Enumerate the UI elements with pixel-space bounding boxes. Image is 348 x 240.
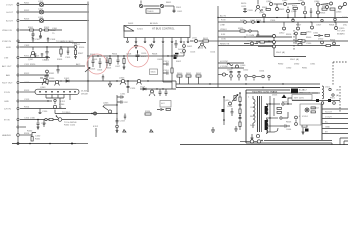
diode D330 — [94, 112, 97, 115]
svg-text:R940: R940 — [306, 37, 312, 39]
svg-text:T601 REG CONV TRANS: T601 REG CONV TRANS — [252, 91, 278, 94]
capacitor C658 — [227, 106, 233, 116]
svg-text:R320: R320 — [30, 64, 36, 66]
svg-text:R330: R330 — [49, 78, 55, 80]
capacitor C333 — [116, 118, 126, 124]
svg-text:C313: C313 — [24, 99, 30, 101]
svg-text:R301: R301 — [28, 27, 34, 29]
svg-text:R904: R904 — [262, 7, 268, 9]
labels right margin — [337, 31, 346, 36]
ground near block — [234, 126, 237, 131]
parts stack x240 — [239, 92, 242, 130]
parts on rail y22 — [240, 20, 260, 24]
svg-text:Q918: Q918 — [323, 4, 329, 6]
svg-text:C310: C310 — [42, 60, 48, 62]
svg-text:R331: R331 — [49, 73, 55, 75]
svg-text:V-OUT: V-OUT — [6, 5, 13, 7]
svg-text:R620: R620 — [241, 3, 247, 5]
svg-text:R902: R902 — [279, 9, 285, 11]
ground triangle pin2 — [134, 43, 137, 48]
svg-text:Q902: Q902 — [282, 0, 288, 2]
transistor Q904 — [314, 1, 320, 6]
transistor Q907 — [259, 12, 266, 22]
svg-text:D930: D930 — [294, 64, 300, 66]
svg-text:R662: R662 — [250, 116, 256, 118]
svg-text:R903: R903 — [320, 13, 326, 15]
rail y22 — [218, 22, 348, 27]
svg-text:SM-1 (A): SM-1 (A) — [290, 58, 299, 61]
svg-text:C330: C330 — [42, 111, 48, 113]
regulator sub-box — [300, 104, 321, 125]
svg-text:Q301: Q301 — [28, 59, 34, 61]
svg-text:B IN: B IN — [221, 34, 226, 36]
svg-text:H.V: H.V — [161, 103, 165, 105]
left connector bus vertical wire — [17, 2, 19, 144]
svg-text:L621: L621 — [250, 20, 256, 22]
svg-text:R306: R306 — [57, 59, 63, 61]
svg-text:V-OUT: V-OUT — [325, 117, 332, 119]
svg-text:C608: C608 — [126, 54, 132, 56]
capacitor C618 — [159, 89, 162, 96]
wire row 12V (y108.5) — [20, 109, 66, 114]
svg-text:L305: L305 — [72, 43, 78, 45]
svg-text:C302: C302 — [50, 30, 56, 32]
vertical 12V node x117 — [104, 95, 118, 130]
svg-text:R342 C342: R342 C342 — [64, 125, 76, 127]
block title — [252, 91, 287, 99]
ground bus bottom rail — [12, 143, 88, 145]
delay line DL301 — [20, 89, 89, 95]
svg-text:R303: R303 — [44, 27, 50, 29]
svg-text:C650: C650 — [227, 70, 233, 72]
extra parts under y31 row — [244, 31, 269, 42]
svg-text:B+ ADJ: B+ ADJ — [299, 89, 306, 92]
wire y41 — [218, 40, 348, 42]
svg-text:R931: R931 — [302, 68, 308, 70]
svg-text:Q914: Q914 — [306, 32, 312, 34]
svg-text:C614: C614 — [210, 52, 216, 54]
capacitor C317 — [102, 75, 104, 82]
svg-text:C940: C940 — [306, 43, 312, 45]
transistor Q917 — [317, 6, 327, 18]
electrolytic bank C655 — [268, 75, 270, 80]
svg-text:75 OHM: 75 OHM — [246, 35, 254, 37]
arrow mark — [85, 68, 90, 73]
svg-text:R310: R310 — [79, 47, 85, 49]
rails into block right — [298, 88, 320, 94]
svg-text:H-IN: H-IN — [6, 47, 11, 49]
capacitor C905 — [310, 8, 312, 18]
svg-text:C620: C620 — [248, 10, 254, 12]
transistor Q918 — [323, 4, 329, 9]
svg-text:R650: R650 — [177, 73, 183, 75]
fuse FB1 — [38, 1, 44, 7]
svg-text:R612: R612 — [198, 48, 204, 50]
svg-text:L201: L201 — [38, 1, 44, 3]
main horizontal wire y56 — [89, 54, 176, 57]
svg-text:R906: R906 — [256, 20, 262, 22]
svg-text:R608: R608 — [152, 54, 158, 56]
svg-text:E702: E702 — [93, 126, 99, 128]
pin6 drop wire — [171, 43, 173, 56]
svg-text:C605: C605 — [90, 69, 96, 71]
diode D302 on row y81 — [64, 78, 70, 82]
resistor network R901 — [322, 6, 335, 10]
secondary taps — [266, 104, 280, 132]
svg-text:Q903: Q903 — [298, 0, 304, 2]
svg-text:IC601: IC601 — [137, 29, 144, 31]
svg-text:F601: F601 — [330, 98, 336, 100]
svg-text:AC IN: AC IN — [220, 15, 226, 18]
transistor Q301 — [28, 47, 36, 61]
capacitor C616 — [163, 70, 170, 75]
more bottom-right corner bends — [331, 143, 333, 145]
labels near connector — [312, 98, 336, 110]
rail y93 segment — [246, 92, 318, 94]
svg-text:C652: C652 — [243, 70, 249, 72]
dense block extra internals — [248, 95, 292, 133]
regulator parts — [300, 114, 309, 135]
misc labels middle — [176, 7, 182, 63]
svg-text:SM-2 (A): SM-2 (A) — [276, 51, 285, 54]
svg-text:Q305: Q305 — [103, 103, 109, 105]
capacitor C610 in circle — [136, 50, 148, 61]
svg-text:L202: L202 — [38, 8, 44, 10]
SM-2 label — [274, 50, 306, 61]
svg-text:R905: R905 — [292, 6, 298, 8]
svg-text:C340: C340 — [35, 136, 41, 138]
transistor Q908 — [287, 7, 298, 18]
svg-text:R920: R920 — [238, 28, 244, 30]
transistor Q906 — [336, 6, 342, 14]
wire y74.5 — [218, 73, 228, 76]
svg-text:C615: C615 — [164, 61, 170, 63]
wire row 2 (G) — [20, 11, 87, 13]
capacitor C607 — [115, 56, 121, 68]
bridge rectifier cluster — [183, 41, 193, 56]
svg-text:9V IN: 9V IN — [4, 120, 10, 122]
inductor L620 — [244, 41, 258, 46]
resistor R606 — [123, 56, 126, 69]
svg-text:GND: GND — [4, 101, 9, 103]
filter caps C620 C621 — [241, 3, 254, 13]
svg-text:R652: R652 — [196, 73, 202, 75]
wire y45.5 — [218, 44, 340, 46]
small parts top corner — [157, 108, 170, 111]
svg-text:D601: D601 — [187, 46, 193, 48]
svg-text:R907: R907 — [296, 25, 302, 27]
capacitor C606 — [97, 58, 103, 72]
AC mains vertical wire — [87, 2, 88, 93]
svg-text:BOARD: BOARD — [337, 33, 345, 36]
svg-text:D611: D611 — [178, 49, 184, 51]
svg-text:R312: R312 — [24, 73, 30, 75]
inductor L610 — [190, 38, 203, 43]
resistor R301 — [28, 27, 34, 31]
svg-text:C307: C307 — [35, 39, 41, 41]
svg-text:C312: C312 — [24, 82, 30, 84]
degauss thermistor circuit — [139, 1, 183, 14]
rectifier D651 — [280, 112, 288, 119]
electrolytic bank C652 — [243, 70, 249, 81]
capacitor C304 — [44, 47, 50, 62]
svg-text:REMOTE: REMOTE — [220, 44, 230, 46]
svg-text:D621: D621 — [240, 20, 246, 22]
second rail y87.5 — [176, 87, 320, 89]
svg-text:R651: R651 — [186, 73, 192, 75]
svg-text:DY-IN: DY-IN — [4, 92, 10, 94]
svg-text:H SYNC: H SYNC — [220, 61, 229, 63]
resistor R307 hanging — [74, 48, 84, 58]
svg-text:V-IN: V-IN — [4, 58, 9, 60]
transistor Q915 — [335, 22, 346, 30]
svg-text:Q907: Q907 — [259, 12, 265, 14]
transistor Q620 — [224, 100, 232, 105]
transistor Q606 — [236, 65, 247, 68]
capacitor C335 — [124, 114, 126, 120]
svg-text:R316: R316 — [24, 133, 30, 135]
svg-text:R313: R313 — [24, 90, 30, 92]
capacitor C612 — [175, 40, 178, 48]
svg-text:R925: R925 — [330, 40, 336, 42]
svg-text:E701: E701 — [60, 101, 66, 103]
box under label — [292, 95, 312, 101]
top rail y17.5 — [218, 15, 348, 18]
svg-text:(A): (A) — [336, 94, 339, 97]
capacitor C619 — [165, 89, 168, 96]
pin name labels — [2, 5, 14, 138]
svg-text:C333: C333 — [120, 121, 126, 123]
transistor Q303 — [40, 75, 55, 89]
svg-text:D901: D901 — [342, 17, 348, 19]
vertical node x128 — [127, 81, 137, 93]
bottom connector circles — [240, 140, 261, 143]
resistor row R650 — [177, 73, 202, 84]
svg-text:R611: R611 — [203, 38, 209, 40]
capacitor C307 above sync row — [32, 37, 41, 42]
junction — [261, 9, 262, 10]
svg-text:AT-BUS: AT-BUS — [150, 22, 158, 25]
below-rail components: transistor Q912 — [279, 22, 286, 35]
test point marks — [123, 130, 153, 133]
capacitor C336 — [37, 120, 48, 130]
svg-text:C654: C654 — [259, 71, 265, 73]
resistor R334 — [145, 111, 151, 115]
svg-text:DL301: DL301 — [81, 91, 88, 93]
label E702 column — [93, 126, 99, 137]
B+ adj label box — [291, 89, 311, 95]
svg-text:L330: L330 — [30, 118, 36, 120]
svg-text:C930: C930 — [286, 68, 292, 70]
electrolytic bank C654 — [256, 71, 265, 78]
inductor L304 — [39, 29, 42, 38]
capacitor C343 — [43, 120, 45, 128]
svg-text:R201: R201 — [24, 3, 30, 5]
rectifier D650 — [282, 103, 292, 105]
svg-text:L620: L620 — [247, 41, 253, 43]
svg-text:B-OUT: B-OUT — [6, 21, 13, 23]
wire y63 — [218, 61, 244, 63]
wire row heater (y135) — [20, 131, 33, 136]
svg-text:C606: C606 — [97, 70, 103, 72]
svg-text:VIDEO IN: VIDEO IN — [2, 30, 12, 32]
svg-text:R663: R663 — [286, 122, 292, 124]
transistor Q911 — [334, 10, 337, 21]
svg-text:Q606: Q606 — [240, 65, 246, 67]
svg-text:HEATER: HEATER — [2, 134, 11, 137]
svg-text:C325: C325 — [130, 88, 136, 90]
capacitor C308 above sync row — [47, 37, 56, 42]
labels below — [221, 20, 306, 41]
svg-text:R930: R930 — [278, 64, 284, 66]
svg-text:SYNC IN: SYNC IN — [2, 41, 11, 43]
ground at 110,84 — [108, 81, 111, 87]
label box under C616 — [150, 69, 158, 75]
svg-text:TO H-DRIVE: TO H-DRIVE — [64, 122, 77, 124]
output connector block vertical — [321, 104, 323, 140]
svg-text:R315: R315 — [34, 56, 40, 58]
resistor R303 — [44, 27, 56, 35]
red annotation circle B — [128, 46, 149, 67]
svg-text:Q306: Q306 — [119, 78, 125, 80]
svg-text:L610: L610 — [192, 38, 198, 40]
wire row H-DY (y84) long rail — [20, 81, 320, 88]
transistor Q308 on row y81 — [137, 79, 149, 84]
inrush resistor box — [175, 53, 186, 55]
svg-text:TH601: TH601 — [147, 11, 154, 13]
svg-text:Q620: Q620 — [224, 100, 230, 102]
small parts under transformer — [251, 134, 263, 141]
small interface box pins — [256, 34, 276, 50]
wire row 4 (video) — [20, 29, 62, 31]
svg-text:R610: R610 — [180, 53, 186, 55]
electrolytic C334 — [116, 125, 119, 132]
transformer T601 primary winding — [253, 96, 255, 128]
svg-text:TO CRT: TO CRT — [337, 31, 346, 33]
svg-text:VR601 2.2k: VR601 2.2k — [299, 93, 311, 95]
drive parts col: junction wire x224 — [222, 96, 225, 125]
junction dots rails — [263, 17, 335, 23]
signal box left edge — [217, 6, 218, 88]
svg-text:400V: 400V — [141, 56, 147, 58]
svg-text:C305: C305 — [65, 57, 71, 59]
svg-text:D655: D655 — [272, 95, 278, 97]
svg-text:R314: R314 — [24, 107, 30, 109]
svg-text:Q912: Q912 — [279, 33, 285, 35]
transformer secondary windings dark — [265, 104, 268, 133]
resistor R904 — [262, 7, 270, 10]
svg-text:R910: R910 — [286, 34, 292, 36]
svg-text:2SC: 2SC — [343, 25, 348, 27]
svg-text:R311: R311 — [24, 56, 30, 58]
svg-text:R307: R307 — [78, 53, 84, 55]
transistor Q602 — [149, 89, 155, 96]
sub wire row y89 — [140, 87, 176, 90]
resistor R611 — [203, 38, 218, 42]
svg-text:VIDEO: VIDEO — [220, 29, 227, 31]
capacitor C305 hanging — [65, 47, 71, 59]
wire row H (y47) — [20, 46, 76, 47]
svg-text:S601: S601 — [151, 72, 157, 74]
wire row sync out — [18, 40, 86, 46]
transistor Q913 — [297, 22, 300, 30]
small circles on rail y22 — [292, 19, 323, 21]
electrolytic bank C653 — [248, 75, 255, 80]
resistor R341 — [30, 133, 41, 142]
svg-text:C331: C331 — [120, 94, 126, 96]
svg-text:P601: P601 — [176, 7, 182, 9]
fuse FB3 — [38, 17, 44, 23]
transistor Q916 — [276, 4, 286, 11]
transistor Q306 on row y81 — [119, 78, 126, 85]
svg-text:DELAY: DELAY — [81, 93, 89, 96]
electrolytic bank C650 — [227, 70, 233, 81]
regulator stack Q304 — [53, 99, 65, 113]
svg-text:Q906: Q906 — [336, 12, 342, 14]
ground triangle pin4 — [150, 44, 153, 49]
extra tiny labels mid — [92, 48, 216, 62]
svg-text:(B): (B) — [336, 90, 339, 92]
resistor R605 — [106, 56, 112, 70]
svg-text:C311: C311 — [24, 64, 30, 66]
svg-text:C308: C308 — [50, 39, 56, 41]
svg-text:D603: D603 — [128, 23, 134, 25]
capacitor C331 — [117, 94, 126, 99]
svg-text:IC651: IC651 — [302, 116, 309, 118]
stack at x47 upper — [46, 70, 56, 83]
inductor L331 — [45, 118, 47, 120]
transistor Q307 on row — [55, 80, 62, 85]
svg-text:F602: F602 — [176, 61, 182, 63]
svg-text:C613: C613 — [190, 52, 196, 54]
svg-text:GND: GND — [325, 127, 330, 129]
svg-text:R332: R332 — [49, 81, 55, 83]
connector pins on left bus — [17, 3, 20, 144]
transistor Q905 — [320, 2, 332, 5]
transistor Q903 — [288, 0, 305, 5]
svg-text:C605: C605 — [92, 59, 98, 61]
svg-text:Q908: Q908 — [291, 11, 297, 13]
connector pin wires — [322, 109, 348, 134]
cluster under y31 line: resistor R920 — [238, 28, 251, 32]
svg-text:C610: C610 — [141, 53, 147, 55]
svg-text:R601: R601 — [166, 2, 172, 4]
svg-text:R202: R202 — [24, 10, 30, 12]
transistor Q902 — [282, 0, 288, 5]
svg-text:C616: C616 — [164, 70, 170, 72]
svg-text:C931: C931 — [310, 64, 316, 66]
transistor Q305 with arrows — [103, 103, 112, 114]
extra labels in block — [250, 107, 292, 131]
svg-text:D920: D920 — [318, 39, 324, 41]
svg-text:R604: R604 — [112, 54, 118, 56]
wire y37 — [218, 35, 292, 37]
svg-text:AFC: AFC — [76, 63, 81, 66]
svg-text:V SYNC: V SYNC — [220, 66, 229, 68]
svg-text:SET 125V: SET 125V — [294, 98, 304, 100]
svg-text:R203: R203 — [24, 19, 30, 21]
fuse FB2 — [38, 8, 44, 14]
capacitor C320 — [57, 66, 60, 74]
svg-text:C314: C314 — [24, 118, 30, 120]
capacitor C615 — [163, 61, 170, 66]
label box mid — [160, 101, 171, 108]
junction dots on rail y84 — [57, 80, 129, 82]
wire row AFC (y66) — [20, 63, 85, 67]
svg-text:CN602: CN602 — [312, 108, 320, 110]
svg-text:Q303: Q303 — [40, 87, 46, 89]
corner bends — [340, 138, 348, 145]
